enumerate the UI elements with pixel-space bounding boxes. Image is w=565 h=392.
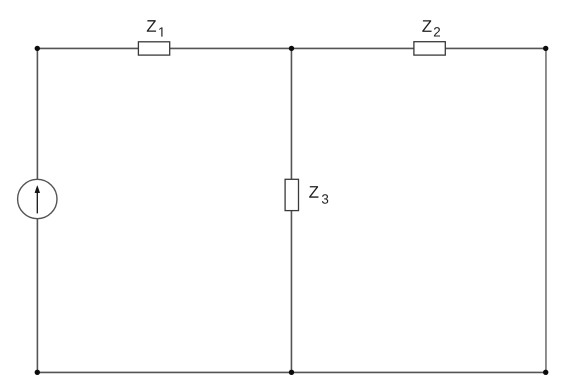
label Z3 bbox=[309, 186, 328, 204]
node junction dot bottom-right bbox=[543, 370, 548, 375]
node junction dot top-left bbox=[35, 46, 40, 51]
wire left branch bbox=[36, 48, 38, 372]
wire top rail bbox=[37, 47, 546, 49]
label Z1 bbox=[147, 20, 163, 36]
wire bottom rail bbox=[37, 371, 546, 373]
wire middle branch bbox=[290, 48, 292, 372]
resistor Z3 body bbox=[285, 179, 298, 210]
node junction dot bottom-left bbox=[35, 370, 40, 375]
current source I1 arrow bbox=[35, 186, 40, 214]
resistor Z2 body bbox=[414, 42, 445, 55]
current source I1 circle bbox=[18, 179, 57, 218]
label Z2 bbox=[422, 20, 440, 36]
node junction dot top-middle bbox=[289, 46, 294, 51]
node junction dot bottom-middle bbox=[289, 370, 294, 375]
node junction dot top-right bbox=[543, 46, 548, 51]
wire right branch bbox=[545, 48, 547, 372]
resistor Z1 body bbox=[138, 42, 169, 55]
